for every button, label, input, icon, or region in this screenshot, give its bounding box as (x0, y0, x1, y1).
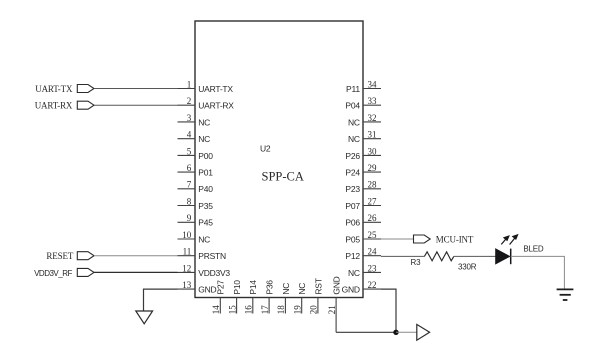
port UART-TX (35, 84, 94, 94)
pin 1 UART-TX (left) (178, 79, 234, 94)
svg-text:14: 14 (211, 305, 221, 315)
svg-text:18: 18 (276, 305, 286, 315)
pin 30 P26 (right) (345, 146, 381, 161)
svg-text:3: 3 (187, 113, 192, 123)
svg-text:NC: NC (348, 268, 360, 278)
svg-text:4: 4 (187, 130, 192, 140)
svg-text:5: 5 (187, 146, 192, 156)
wire UART-TX to pin 1 (94, 88, 178, 90)
wire pin 22 GND down (381, 289, 396, 332)
svg-text:33: 33 (368, 96, 378, 106)
port MCU-INT (414, 234, 474, 244)
LED emission arrow 1 (501, 235, 510, 244)
pin 3 NC (left) (178, 113, 211, 128)
svg-text:NC: NC (348, 134, 360, 144)
wire pin 25 P05 to MCU-INT port (381, 238, 414, 240)
svg-text:17: 17 (260, 305, 270, 315)
svg-text:23: 23 (368, 263, 378, 273)
pin 10 NC (left) (178, 230, 211, 245)
svg-text:22: 22 (368, 280, 377, 290)
svg-text:NC: NC (198, 134, 210, 144)
svg-text:30: 30 (368, 146, 378, 156)
pin 21 GND (bottom) (327, 276, 342, 332)
pin 19 NC (bottom) (293, 283, 308, 315)
svg-text:P12: P12 (345, 251, 360, 261)
svg-text:10: 10 (182, 230, 192, 240)
pin 13 GND (left) (178, 280, 217, 295)
svg-text:RESET: RESET (46, 251, 73, 261)
svg-text:P45: P45 (198, 218, 213, 228)
svg-text:31: 31 (368, 130, 377, 140)
svg-text:GND: GND (332, 276, 342, 294)
pin 33 P04 (right) (345, 96, 381, 111)
svg-text:VDD3V_RF: VDD3V_RF (34, 269, 72, 278)
svg-text:26: 26 (368, 213, 378, 223)
svg-text:BLED: BLED (523, 245, 544, 254)
pin 11 PRSTN (left) (178, 247, 226, 262)
pin 4 NC (left) (178, 130, 211, 145)
pin 27 P07 (right) (345, 196, 381, 211)
svg-text:GND: GND (342, 285, 360, 295)
svg-text:PRSTN: PRSTN (198, 251, 226, 261)
pin 32 NC (right) (348, 113, 381, 128)
IC U2 body (195, 21, 363, 298)
svg-text:UART-TX: UART-TX (35, 84, 73, 94)
svg-text:VDD3V3: VDD3V3 (198, 268, 230, 278)
pin 12 VDD3V3 (left) (178, 263, 231, 278)
svg-text:RST: RST (313, 278, 323, 294)
svg-text:P05: P05 (345, 234, 360, 244)
svg-text:8: 8 (187, 196, 192, 206)
pin 24 P12 (right) (345, 247, 381, 262)
svg-text:P24: P24 (345, 168, 360, 178)
svg-text:P36: P36 (265, 280, 275, 295)
pin 26 P06 (right) (345, 213, 381, 228)
pin 29 P24 (right) (345, 163, 381, 178)
svg-text:20: 20 (309, 305, 319, 315)
pin 5 P00 (left) (178, 146, 214, 161)
svg-text:15: 15 (227, 305, 237, 315)
pin 14 P27 (bottom) (211, 280, 226, 315)
svg-text:19: 19 (293, 305, 303, 315)
svg-text:P01: P01 (198, 168, 213, 178)
svg-text:25: 25 (368, 230, 378, 240)
svg-text:GND: GND (198, 285, 216, 295)
pin 22 GND (right) (342, 280, 381, 295)
wire junction to ground arrow (396, 331, 417, 333)
pin 9 P45 (left) (178, 213, 214, 228)
wire pin 13 GND to ground (144, 289, 178, 311)
svg-text:P06: P06 (345, 218, 360, 228)
svg-text:P40: P40 (198, 184, 213, 194)
svg-text:NC: NC (297, 283, 307, 295)
refdes U2 (260, 144, 271, 154)
svg-text:P10: P10 (232, 280, 242, 295)
pin 8 P35 (left) (178, 196, 214, 211)
svg-text:32: 32 (368, 113, 377, 123)
junction dot (393, 330, 398, 335)
svg-text:P00: P00 (198, 151, 213, 161)
svg-text:28: 28 (368, 180, 378, 190)
port RESET (46, 251, 94, 261)
ground (earth bars) at LED (557, 289, 574, 300)
port UART-RX (35, 101, 94, 111)
svg-text:P26: P26 (345, 151, 360, 161)
svg-text:UART-TX: UART-TX (198, 84, 233, 94)
resistor R3 (424, 252, 453, 261)
svg-text:NC: NC (281, 283, 291, 295)
svg-text:16: 16 (244, 305, 254, 315)
svg-text:P04: P04 (345, 101, 360, 111)
svg-text:U2: U2 (260, 144, 271, 154)
pin 20 RST (bottom) (309, 278, 324, 314)
svg-text:NC: NC (348, 117, 360, 127)
svg-text:NC: NC (198, 234, 210, 244)
svg-text:27: 27 (368, 196, 378, 206)
svg-text:P27: P27 (216, 280, 226, 295)
LED BLED diode (496, 249, 511, 265)
label BLED (523, 245, 544, 254)
ground (open arrow) bottom right (417, 324, 430, 340)
svg-text:29: 29 (368, 163, 378, 173)
pin 23 NC (right) (348, 263, 381, 278)
svg-text:1: 1 (187, 79, 192, 89)
svg-text:P07: P07 (345, 201, 360, 211)
svg-text:13: 13 (182, 280, 192, 290)
value 330R (458, 262, 477, 271)
pin 15 P10 (bottom) (227, 280, 242, 315)
svg-text:7: 7 (187, 180, 192, 190)
pin 31 NC (right) (348, 130, 381, 145)
svg-text:11: 11 (183, 247, 192, 257)
wire pin 21 GND to junction (336, 331, 396, 333)
svg-text:24: 24 (368, 247, 378, 257)
svg-text:P35: P35 (198, 201, 213, 211)
wire RESET to pin 11 (94, 255, 178, 257)
svg-text:UART-RX: UART-RX (35, 101, 73, 111)
wire LED cathode to ground (511, 256, 565, 289)
svg-text:UART-RX: UART-RX (198, 101, 234, 111)
svg-text:NC: NC (198, 117, 210, 127)
svg-text:P11: P11 (346, 84, 360, 94)
pin 7 P40 (left) (178, 180, 214, 195)
svg-text:P14: P14 (248, 280, 258, 295)
pin 2 UART-RX (left) (178, 96, 235, 111)
pin 28 P23 (right) (345, 180, 381, 195)
svg-text:12: 12 (182, 263, 191, 273)
pin 17 P36 (bottom) (260, 280, 275, 315)
svg-text:330R: 330R (458, 262, 477, 271)
LED emission arrow 2 (510, 234, 519, 245)
svg-text:9: 9 (187, 213, 192, 223)
pin 18 NC (bottom) (276, 283, 291, 315)
svg-text:P23: P23 (345, 184, 360, 194)
svg-text:SPP-CA: SPP-CA (262, 170, 304, 184)
svg-text:6: 6 (187, 163, 192, 173)
svg-text:2: 2 (187, 96, 192, 106)
svg-text:R3: R3 (411, 258, 422, 267)
wire pin 24 P12 to resistor R3 (381, 255, 424, 257)
svg-text:21: 21 (327, 305, 337, 314)
wire resistor to LED anode (454, 255, 496, 257)
pin 16 P14 (bottom) (244, 280, 259, 315)
wire UART-RX to pin 2 (94, 104, 178, 106)
pin 25 P05 (right) (345, 230, 381, 245)
pin 6 P01 (left) (178, 163, 214, 178)
port VDD3V_RF (34, 268, 94, 277)
ground (open triangle) at pin 13 (136, 311, 153, 324)
label R3 (411, 258, 422, 267)
part value SPP-CA (262, 170, 304, 184)
pin 34 P11 (right) (346, 79, 381, 94)
svg-text:34: 34 (368, 79, 378, 89)
svg-text:MCU-INT: MCU-INT (436, 234, 474, 244)
wire VDD3V_RF to pin 12 (94, 271, 178, 273)
